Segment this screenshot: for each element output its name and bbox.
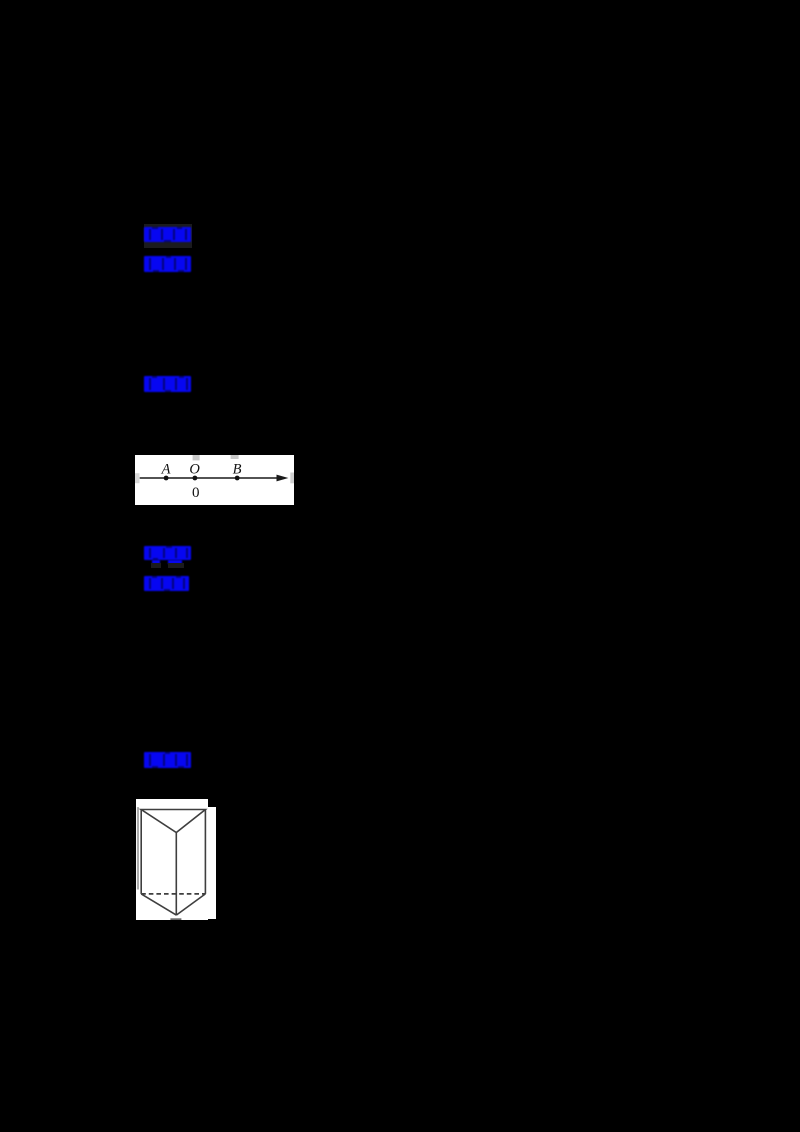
figure: number line: [135, 455, 294, 505]
gray smudge top 2: [231, 455, 239, 459]
gray smudge top 1: [193, 455, 200, 460]
gray smudge left edge: [135, 474, 140, 484]
point A dot: [164, 476, 169, 481]
bottom left edge: [141, 894, 176, 915]
bottom right edge: [176, 894, 205, 915]
badge B2: [144, 256, 191, 272]
badge halo 1: [144, 224, 192, 248]
badge B5: [144, 576, 189, 591]
arrowhead: [277, 475, 289, 482]
point O dot: [193, 476, 198, 481]
point B dot: [235, 476, 240, 481]
prism white box right extension: [208, 807, 216, 920]
badge B4: [144, 546, 191, 561]
badge B4 halo tabs: [151, 563, 161, 568]
bottom smudge: [170, 918, 181, 920]
top face triangle: [141, 810, 205, 833]
svg-text:A: A: [161, 462, 171, 478]
svg-text:B: B: [233, 462, 242, 478]
badge B4 tab1: [152, 560, 160, 564]
left vertical edge: [140, 810, 142, 894]
svg-text:O: O: [190, 462, 201, 478]
badge B4 tab2: [168, 560, 182, 564]
hidden bottom edge dashed: [141, 893, 205, 895]
gray smudge right edge: [291, 473, 295, 484]
axis line: [140, 477, 281, 479]
front vertical edge: [175, 833, 177, 916]
badge B3: [144, 376, 191, 392]
svg-text:0: 0: [192, 486, 200, 502]
gray bar left: [137, 807, 139, 889]
badge B6: [144, 752, 191, 768]
badge B1: [144, 227, 191, 242]
right vertical edge: [204, 810, 206, 894]
prism drawing: [136, 799, 208, 920]
figure: triangular prism white box: [136, 799, 208, 920]
